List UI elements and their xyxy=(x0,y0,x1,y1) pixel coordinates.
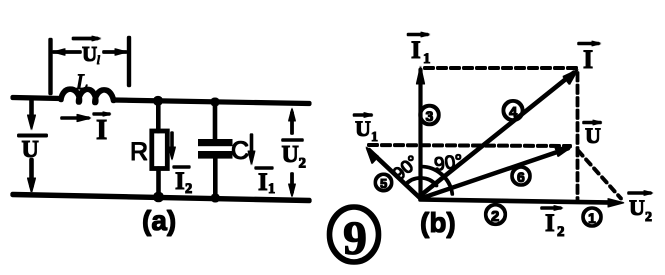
current arrow I2 beside R xyxy=(169,133,176,160)
wire R branch upper xyxy=(157,101,161,131)
angle arc large between I1 and axis xyxy=(421,166,453,194)
node R bottom junction dot xyxy=(154,192,164,202)
label U2 output xyxy=(282,140,307,172)
label U1 phasor xyxy=(355,113,379,145)
label I2 xyxy=(174,167,192,197)
svg-text:2: 2 xyxy=(491,208,499,225)
wire left branch lower with arrow xyxy=(30,160,34,186)
figure number circled 9 xyxy=(330,207,379,265)
svg-text:1: 1 xyxy=(588,210,596,226)
wire top rail left segment xyxy=(13,98,61,99)
dimension tick right for UL xyxy=(127,38,130,85)
wire top rail right segment xyxy=(114,100,310,104)
dashed line U1 tip to U tip xyxy=(369,145,570,146)
capacitor C plates xyxy=(199,140,233,146)
svg-text:4: 4 xyxy=(509,104,518,121)
svg-text:L: L xyxy=(75,69,88,94)
svg-text:I: I xyxy=(96,114,107,146)
label I2 phasor xyxy=(542,206,565,240)
svg-text:6: 6 xyxy=(517,169,525,185)
wire bottom rail xyxy=(13,195,309,201)
dimension tick left for UL xyxy=(49,40,52,93)
svg-text:5: 5 xyxy=(380,176,387,191)
svg-text:l: l xyxy=(97,52,101,67)
node C bottom junction dot xyxy=(211,194,219,202)
wire C branch upper xyxy=(213,102,217,139)
svg-text:U: U xyxy=(282,142,299,168)
svg-text:1: 1 xyxy=(371,130,378,145)
svg-text:1: 1 xyxy=(423,51,431,67)
vector I xyxy=(421,73,575,196)
svg-text:I: I xyxy=(545,210,555,237)
voltage arrow U2 top (pointing up to rail) xyxy=(289,108,296,133)
label I1 phasor xyxy=(409,32,431,67)
svg-text:I: I xyxy=(258,169,268,196)
label U source voltage xyxy=(19,136,46,164)
svg-text:9: 9 xyxy=(343,212,367,265)
vector U xyxy=(421,148,569,198)
svg-text:C: C xyxy=(231,137,249,165)
label I1 xyxy=(256,168,275,197)
current arrow I xyxy=(62,114,91,121)
label I phasor xyxy=(579,41,601,74)
wire C branch lower xyxy=(214,158,218,197)
vector U1 xyxy=(369,150,421,199)
inductor L1 coil xyxy=(61,89,114,102)
wire R branch lower xyxy=(157,169,161,197)
svg-text:2: 2 xyxy=(185,181,192,197)
svg-text:(a): (a) xyxy=(142,205,176,236)
svg-text:2: 2 xyxy=(299,156,307,172)
svg-text:R: R xyxy=(130,138,148,166)
dashed line I tip down to axis xyxy=(576,73,579,202)
label UL voltage xyxy=(74,36,102,67)
svg-text:I: I xyxy=(583,45,593,74)
svg-text:I: I xyxy=(175,168,185,195)
svg-text:2: 2 xyxy=(557,224,565,240)
node label circled 4 xyxy=(503,101,522,121)
angle arc small between U1 and I xyxy=(406,178,437,186)
wire left branch upper with U arrow xyxy=(30,98,34,122)
node label circled 1 xyxy=(583,208,601,226)
svg-text:1: 1 xyxy=(268,181,275,197)
dimension arrow right xyxy=(104,49,127,55)
node label circled 2 xyxy=(486,205,506,225)
vector I1 xyxy=(419,70,422,199)
voltage arrow U2 bottom (pointing down to rail) xyxy=(289,174,296,197)
svg-text:2: 2 xyxy=(645,210,652,225)
node R top junction dot xyxy=(154,96,163,105)
svg-text:U: U xyxy=(585,123,601,148)
svg-text:U: U xyxy=(82,42,97,66)
svg-text:U: U xyxy=(629,195,645,220)
node label circled 5 xyxy=(375,174,391,191)
svg-text:I: I xyxy=(411,37,421,64)
current arrow I1 beside C xyxy=(248,135,255,165)
node C top junction dot xyxy=(211,98,219,106)
vector I2 axis with U2 arrowhead xyxy=(421,200,614,203)
label U phasor xyxy=(584,120,602,148)
label I current xyxy=(94,112,111,146)
dashed line U tip to U2 tip xyxy=(578,151,621,199)
resistor R xyxy=(152,131,168,169)
dashed line I1 tip to I tip xyxy=(425,67,576,70)
label U2 phasor xyxy=(629,191,653,225)
svg-text:3: 3 xyxy=(426,108,434,124)
svg-text:90°: 90° xyxy=(433,151,464,176)
node label circled 3 xyxy=(420,106,439,125)
svg-text:(b): (b) xyxy=(420,207,456,238)
node label circled 6 xyxy=(512,167,530,185)
svg-text:U: U xyxy=(355,116,371,141)
dimension arrow left xyxy=(53,49,80,55)
